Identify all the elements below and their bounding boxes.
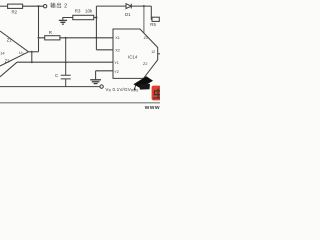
svg-text:IC14: IC14 xyxy=(128,55,138,60)
capacitor C xyxy=(61,38,71,87)
svg-text:www.: www. xyxy=(144,105,160,110)
svg-text:Y2: Y2 xyxy=(114,70,119,74)
svg-text:X1: X1 xyxy=(115,36,120,40)
wire R3 to vertical xyxy=(94,17,97,19)
wire bottom rail VR xyxy=(0,86,100,88)
wire vertical output node to opamp output xyxy=(38,6,40,52)
svg-text:X2: X2 xyxy=(115,48,120,52)
node R3 drop on X row xyxy=(95,37,97,39)
op-amp U1 triangle xyxy=(0,31,29,66)
node X row left xyxy=(38,37,40,39)
wire Y2 row xyxy=(96,71,113,80)
wire diode row xyxy=(96,5,151,7)
wire Y1 row xyxy=(17,61,113,63)
node cap top xyxy=(65,37,67,39)
svg-text:虫: 虫 xyxy=(153,87,160,101)
resistor R5 xyxy=(152,17,159,21)
node apex junction xyxy=(31,51,33,53)
svg-text:R2: R2 xyxy=(12,10,18,15)
svg-text:U₀: U₀ xyxy=(19,50,24,55)
wire corner down to R5 xyxy=(151,6,152,19)
resistor R2 xyxy=(8,4,23,8)
svg-text:R5: R5 xyxy=(150,22,156,27)
node D1 output xyxy=(143,5,145,7)
wire vertical diode feed / X2 feed xyxy=(96,6,113,50)
ground G1 xyxy=(59,20,67,24)
watermark red seal 虫 xyxy=(152,86,164,101)
wire X row xyxy=(39,37,114,39)
svg-text:R3: R3 xyxy=(75,9,81,14)
svg-text:Y1: Y1 xyxy=(114,61,119,65)
terminal output 2 xyxy=(43,5,46,8)
ground G2 xyxy=(90,80,101,84)
svg-text:14: 14 xyxy=(0,50,5,55)
node Y1 apex drop xyxy=(31,61,33,63)
wire Y1 lead diagonal xyxy=(0,62,17,77)
svg-text:10k: 10k xyxy=(85,9,93,14)
svg-text:Z2: Z2 xyxy=(5,59,11,64)
node output2 junction xyxy=(37,5,39,7)
wire output stub xyxy=(158,53,160,55)
svg-text:输出 2: 输出 2 xyxy=(50,1,67,9)
wire R2 to output node xyxy=(23,5,44,7)
svg-text:D1: D1 xyxy=(125,12,131,17)
node Y1 cap xyxy=(65,61,67,63)
wire node to Z1 pin xyxy=(143,6,145,33)
resistor R3 xyxy=(73,15,94,19)
wire R3 ground stem xyxy=(63,18,73,21)
diode D1 xyxy=(126,4,131,9)
node R3 junction xyxy=(95,16,97,18)
wire vertical apex to Y1 line xyxy=(31,52,33,62)
background xyxy=(0,0,160,110)
resistor R xyxy=(45,36,60,40)
svg-text:Z1: Z1 xyxy=(7,38,13,43)
wire top-left to R2 xyxy=(0,5,8,7)
watermark graduation cap xyxy=(133,76,153,90)
svg-text:C: C xyxy=(55,73,58,78)
terminal VR xyxy=(100,85,103,88)
svg-text:Z2: Z2 xyxy=(143,62,147,66)
svg-text:Z1: Z1 xyxy=(144,36,148,40)
multiplier IC box xyxy=(113,29,158,78)
svg-text:R: R xyxy=(49,30,52,35)
figure border line xyxy=(0,102,160,104)
svg-text:12: 12 xyxy=(151,50,155,54)
wire opamp apex to vertical xyxy=(29,51,39,53)
